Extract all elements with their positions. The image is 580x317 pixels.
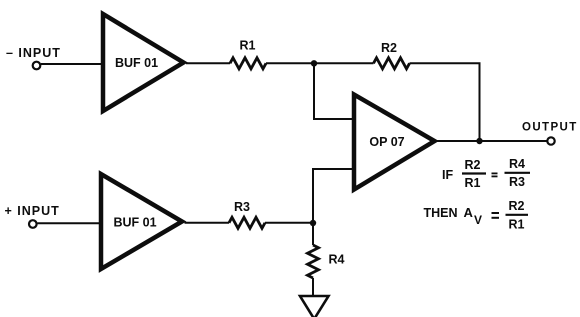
svg-text:R3: R3: [509, 175, 525, 189]
op-amp BUF 01 (bottom buffer U2): [101, 174, 182, 269]
svg-text:R4: R4: [509, 157, 525, 171]
op-amp OP 07 (U3): [354, 95, 435, 190]
wire R1 to node A and on to R2: [266, 62, 374, 64]
wire R4 to ground: [312, 278, 314, 296]
wire R3 to node B: [265, 222, 313, 224]
resistor R4: [308, 245, 319, 278]
op-amp BUF 01 (top buffer U1): [103, 14, 184, 111]
svg-text:R1: R1: [465, 176, 481, 190]
wire R2 to output node (feedback): [410, 63, 480, 141]
svg-text:OUTPUT: OUTPUT: [522, 122, 578, 134]
wire op-amp output to OUTPUT terminal: [437, 140, 547, 142]
resistor R3: [229, 217, 265, 228]
wire BUF2 output to R3: [185, 222, 230, 224]
ground: [300, 296, 329, 317]
svg-text:+ INPUT: + INPUT: [5, 204, 60, 218]
svg-text:A: A: [464, 205, 474, 220]
svg-text:R4: R4: [329, 253, 345, 267]
svg-text:R2: R2: [509, 199, 525, 213]
wire node A down to op-amp inverting input: [314, 63, 354, 119]
terminal plus input: [29, 220, 37, 228]
svg-text:IF: IF: [442, 168, 453, 182]
svg-text:– INPUT: – INPUT: [6, 46, 61, 60]
wire minus input to BUF1: [41, 63, 103, 65]
resistor R1: [230, 58, 266, 69]
resistor R2: [374, 58, 410, 69]
wire BUF1 output to R1: [186, 62, 230, 64]
equation line 2 fraction bar: [506, 214, 529, 216]
svg-text:R2: R2: [381, 41, 397, 55]
equation line 1: IF R2/R1 = R4/R3: [442, 157, 525, 190]
svg-text:R2: R2: [465, 158, 481, 172]
node A (R1/R2/op-amp junction): [311, 60, 317, 66]
wire node B down to R4: [312, 223, 314, 245]
svg-text:BUF 01: BUF 01: [115, 56, 158, 70]
node B (R3/R4/op-amp junction): [310, 220, 316, 226]
equation line 2 equals sign: [492, 212, 500, 214]
svg-text:V: V: [474, 213, 482, 227]
svg-text:OP 07: OP 07: [369, 135, 404, 149]
wire plus input to BUF2: [38, 222, 102, 224]
terminal OUTPUT: [547, 137, 554, 144]
equation line 2: THEN Av = R2/R1: [424, 199, 525, 232]
terminal minus input: [33, 62, 41, 70]
svg-text:THEN: THEN: [424, 206, 458, 220]
svg-text:R3: R3: [234, 200, 250, 214]
equation line 1 equals sign: [492, 172, 498, 174]
svg-text:R1: R1: [509, 218, 525, 232]
wire op-amp noninverting input from node B: [313, 169, 354, 224]
svg-text:BUF 01: BUF 01: [113, 216, 156, 230]
node output junction: [476, 138, 482, 144]
svg-text:R1: R1: [240, 39, 256, 53]
equation line 1 fraction bars: [462, 172, 486, 174]
